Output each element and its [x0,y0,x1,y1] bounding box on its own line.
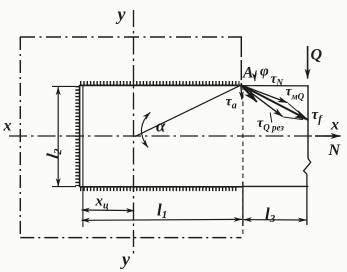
plate left edge line [79,85,81,187]
dimension l2 vertical line [57,87,59,186]
force Q arrow [307,46,309,79]
dimension x_c line [82,209,135,212]
angle phi arrow [255,71,257,82]
parallelogram side from tau_Qrez tip [283,117,303,120]
dashed vertical extension below A [242,86,244,238]
svg-text:α: α [156,117,166,136]
plate top edge line [80,84,241,86]
svg-text:τN: τN [271,71,284,88]
force N arrow on x axis [315,135,341,137]
svg-text:y: y [120,249,131,269]
svg-text:A: A [242,65,253,82]
plate bottom edge line [80,186,243,188]
weld hatching: plate bottom edge teeth [80,187,238,191]
vector tau_Q rez [241,85,283,117]
svg-text:N: N [328,142,342,159]
thin line from A to force application point [241,85,309,87]
leader from tau_Qrez label [270,113,272,123]
weld hatching: plate top edge teeth [80,81,240,85]
svg-text:τf: τf [312,107,324,126]
resultant vector tau_f (thick) [241,85,308,120]
thick component vector at A [241,85,257,102]
outer dashed rectangle left edge [19,37,21,238]
stress vector tau_a at A [241,85,242,99]
svg-text:x: x [330,117,339,134]
y axis (vertical centerline) [133,10,135,257]
dimension l1 line [82,218,243,221]
svg-text:l3: l3 [265,205,276,226]
weld hatching: plate left edge teeth [75,86,79,186]
outer dashed rectangle right edge (top part, near solid) [240,37,242,85]
angle alpha arc with arrows [141,112,150,147]
svg-text:x: x [3,118,12,135]
l2 top tick [52,85,76,87]
x axis (horizontal centerline) [9,135,342,137]
vector tau_mQ [241,85,288,103]
svg-text:Q: Q [311,47,323,64]
outer dashed rectangle top edge [20,36,242,38]
svg-text:y: y [116,4,127,24]
dimension l3 line [244,219,307,221]
break (zigzag) symbol [304,159,311,175]
outer dashed rectangle bottom edge [20,237,241,239]
parallelogram side from tau_mQ tip [288,103,305,117]
svg-text:l2: l2 [43,146,65,159]
svg-text:φ: φ [260,64,269,80]
right vertical post above break [307,86,309,159]
solid part of right extension line [242,182,244,226]
bottom edge thin continuation to right post [242,185,308,187]
l2 bottom tick [52,186,76,188]
right vertical post below break [306,174,308,225]
inner left extension line [82,85,84,227]
svg-text:τa: τa [226,95,237,112]
radius line O to A [135,85,241,136]
svg-text:l1: l1 [157,201,167,222]
svg-text:xц: xц [95,194,110,212]
